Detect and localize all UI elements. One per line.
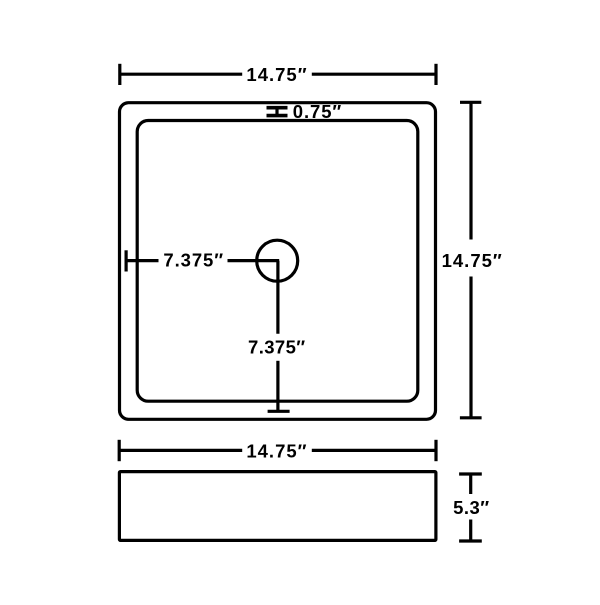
svg-text:14.75″: 14.75″ <box>442 250 503 271</box>
svg-text:14.75″: 14.75″ <box>246 64 307 85</box>
svg-text:7.375″: 7.375″ <box>248 336 306 357</box>
svg-text:0.75″: 0.75″ <box>293 101 342 122</box>
svg-text:14.75″: 14.75″ <box>246 440 307 461</box>
svg-text:5.3″: 5.3″ <box>453 497 490 518</box>
svg-text:7.375″: 7.375″ <box>163 249 224 270</box>
